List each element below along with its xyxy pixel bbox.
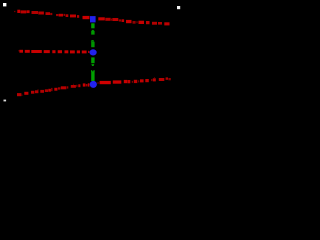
net label row NET3 left (red silkscreen text, sloping up) — [17, 83, 89, 96]
trace T3 cap (bright green tick) — [91, 40, 95, 41]
net label row NET3 right (red silkscreen text, sloping up) — [98, 77, 171, 84]
net label row NET1 right (red silkscreen text) — [98, 17, 169, 25]
pad P1 (blue SMD pad) — [90, 16, 96, 22]
origin marker bottom-left — [4, 100, 7, 102]
trace T5 (green vertical trace) — [91, 70, 95, 81]
origin marker top-right — [177, 6, 180, 9]
origin marker top-left — [3, 3, 6, 6]
trace T4 tick (bright green) — [91, 64, 94, 66]
trace T3 (green vertical trace) — [91, 42, 94, 47]
trace T1 (green vertical trace) — [91, 23, 94, 28]
trace T4 (green vertical trace) — [91, 57, 94, 63]
net label row NET1 left (red silkscreen text) — [14, 10, 89, 19]
trace T2 (green vertical trace) — [91, 30, 94, 35]
via V1 (blue via) — [90, 49, 97, 55]
net label row NET2 (red dashed trace, middle) — [19, 50, 90, 54]
via V2 (blue via) — [90, 81, 97, 88]
